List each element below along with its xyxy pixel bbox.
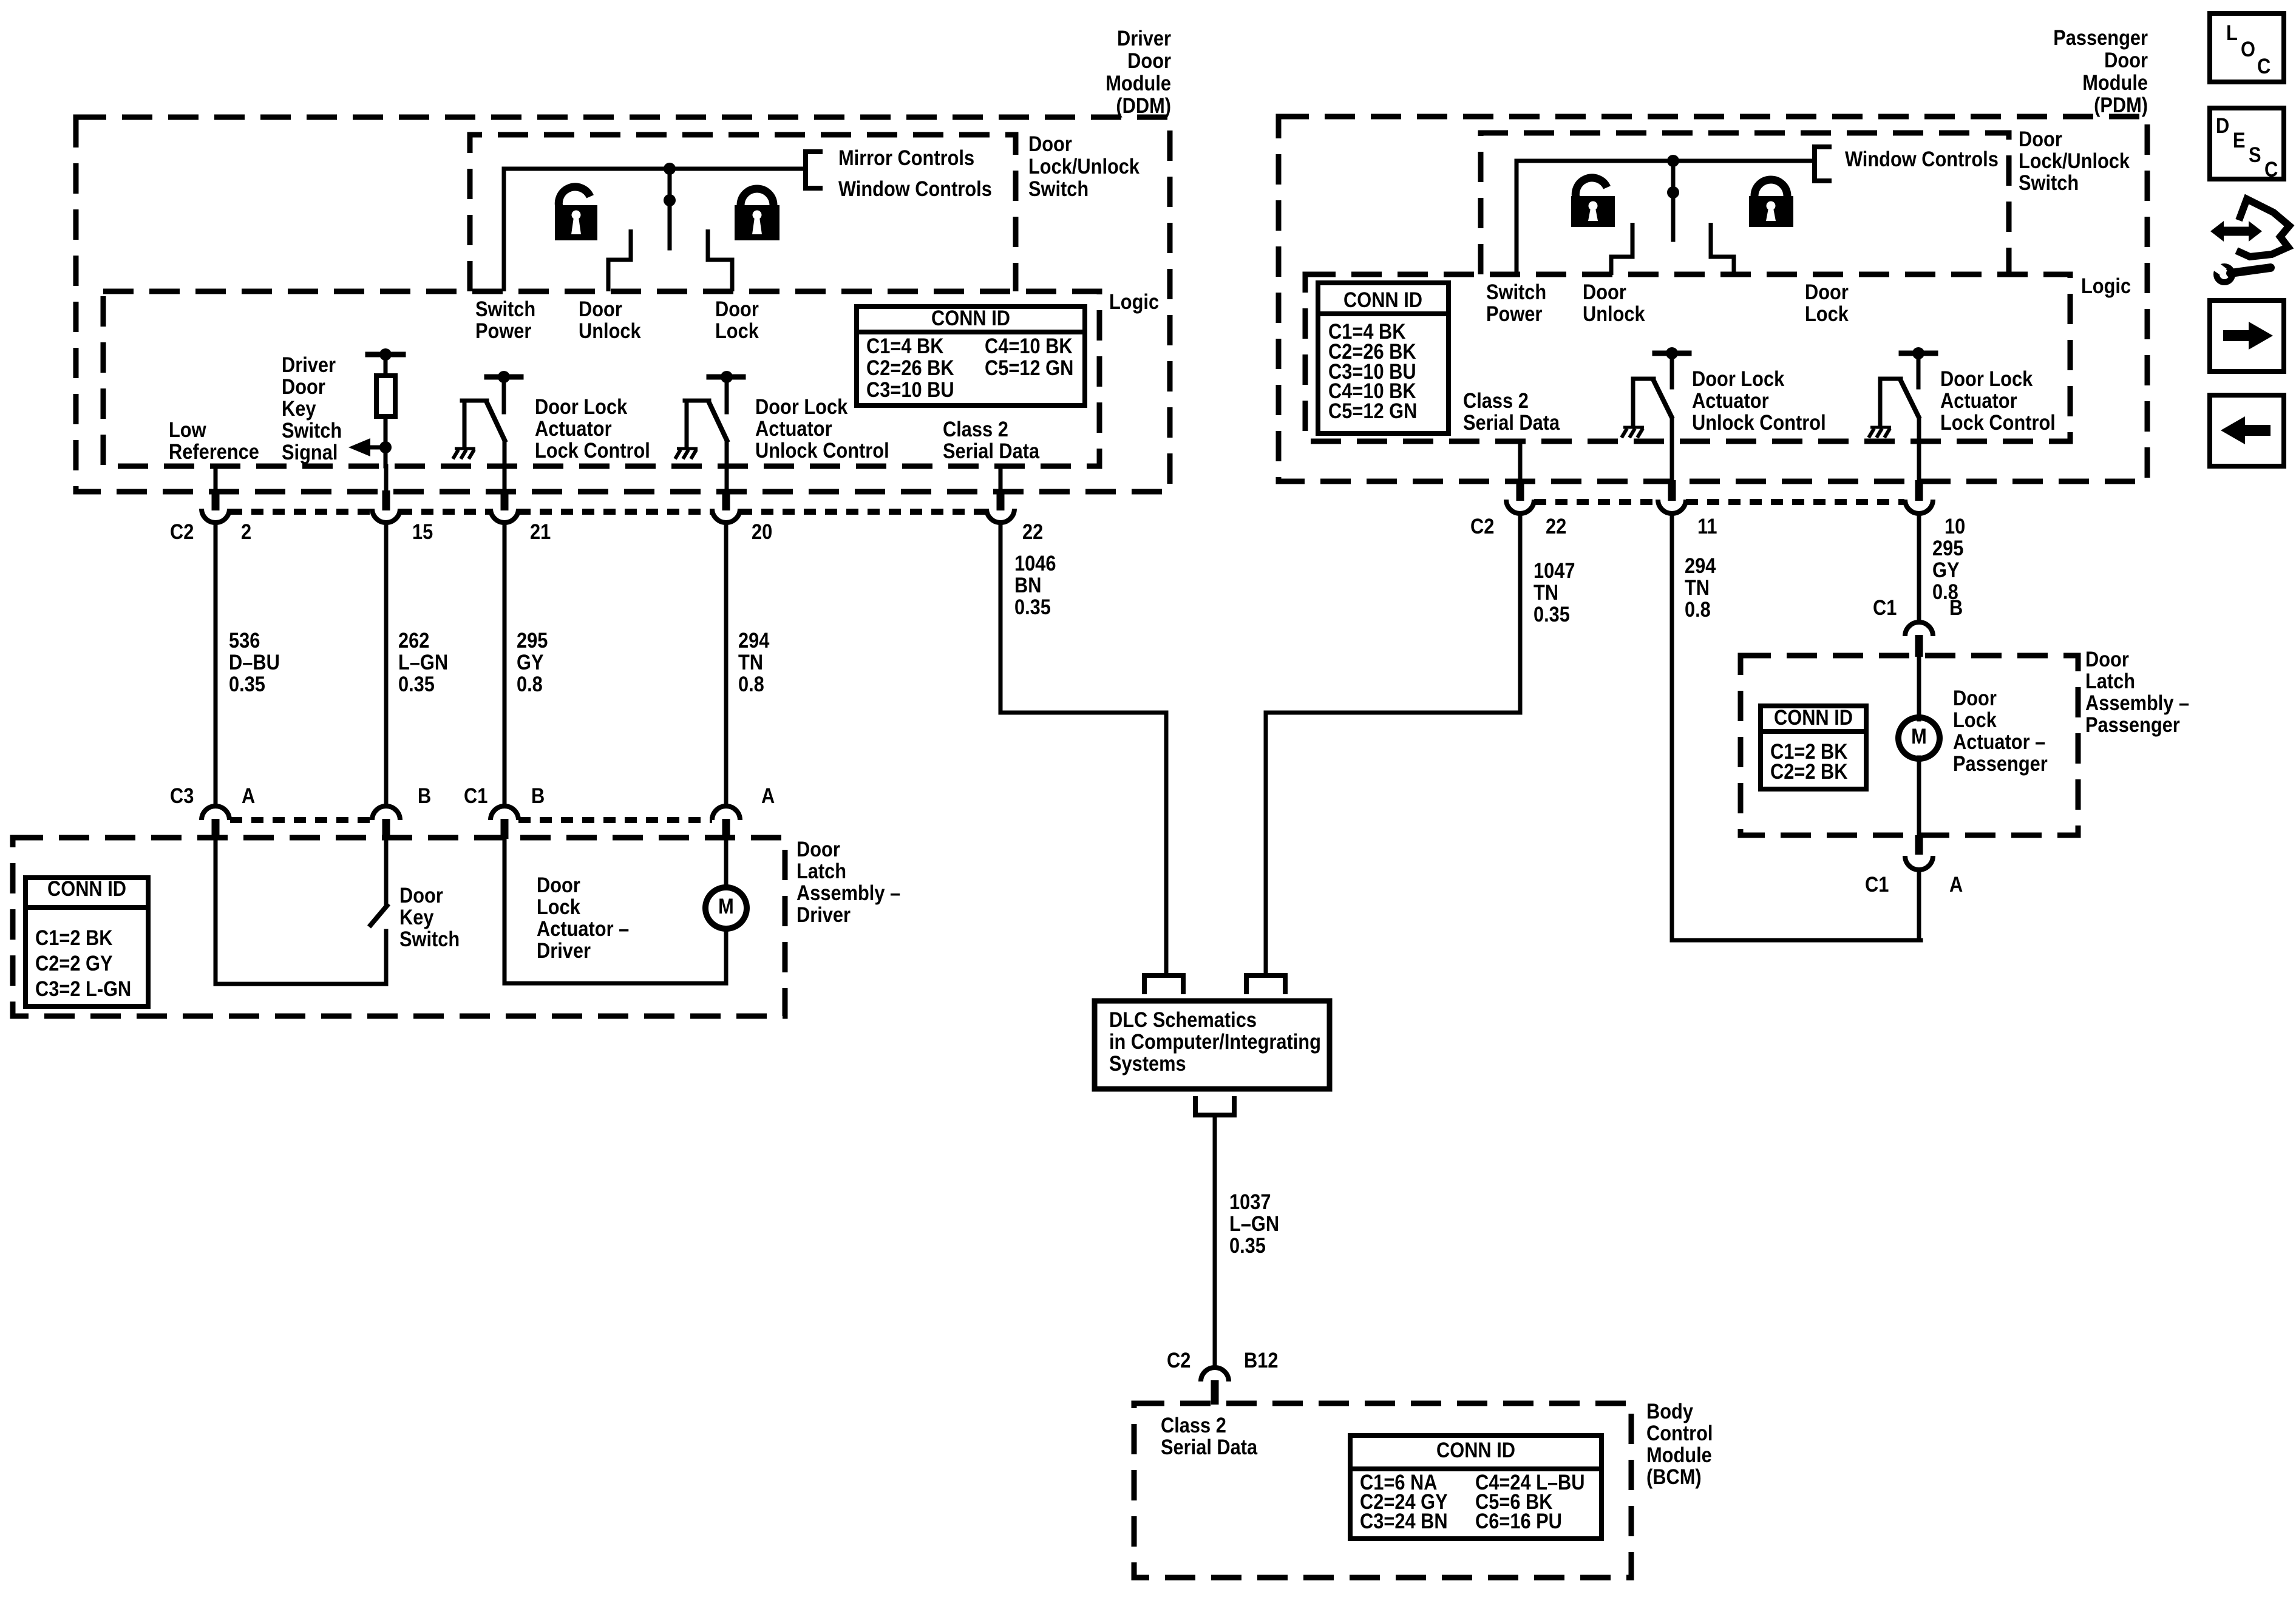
wire 294 TN (passenger) [1670, 514, 1674, 940]
switch S2 Door Lock/Unlock Switch (PDM) dashed box [1481, 133, 2009, 274]
switch contact Door Lock [708, 229, 732, 291]
svg-text:22: 22 [1022, 520, 1043, 543]
svg-text:Door: Door [1805, 280, 1849, 303]
svg-text:Passenger: Passenger [1953, 751, 2048, 775]
svg-text:C2: C2 [1470, 514, 1494, 538]
switch contact Door Unlock (PDM) [1611, 223, 1632, 275]
wire unlock output (PDM) [1670, 419, 1674, 480]
connector fork right into DLC [1246, 975, 1285, 994]
wire unlock control output [725, 442, 729, 492]
svg-text:C: C [2257, 54, 2271, 78]
signal arrow to label [369, 446, 385, 450]
svg-text:C3=2 L-GN: C3=2 L-GN [35, 977, 131, 1000]
svg-text:C2=2 GY: C2=2 GY [35, 951, 113, 975]
svg-text:C3=24 BN: C3=24 BN [1360, 1509, 1448, 1533]
svg-text:O: O [2241, 37, 2255, 61]
module Door Latch Assembly Driver dashed box [13, 838, 785, 1016]
switch S1 Door Lock/Unlock Switch dashed box [470, 135, 1016, 291]
wire switch common bus [504, 169, 806, 291]
svg-text:Window Controls: Window Controls [1845, 147, 1999, 171]
power rail T for key switch pull-up [368, 352, 403, 358]
svg-text:Assembly –: Assembly – [796, 881, 900, 904]
svg-text:Actuator: Actuator [755, 416, 832, 440]
svg-text:Actuator –: Actuator – [1953, 730, 2045, 753]
svg-text:B: B [1949, 595, 1963, 619]
wire latch bottom (key switch loop) [216, 982, 386, 986]
resistor R key switch pull-up [376, 376, 395, 416]
svg-text:Switch: Switch [399, 927, 460, 951]
ground (driver unlock control) [677, 447, 698, 450]
connector cap and stub into driver latch x=831 [491, 806, 518, 820]
svg-text:Door: Door [1028, 132, 1072, 155]
node junction dots (PDM) [1667, 155, 1679, 167]
svg-text:Switch: Switch [475, 297, 535, 320]
svg-text:Door: Door [579, 297, 622, 320]
connector dotted line C2 (DDM) [230, 509, 372, 515]
table CONN ID (PDM) [1318, 283, 1449, 433]
svg-text:TN: TN [1685, 575, 1710, 599]
svg-text:0.8: 0.8 [738, 672, 764, 696]
pin stub and connector cup PDM x=2754 [1668, 480, 1676, 501]
connector fork bottom of DLC [1195, 1096, 1234, 1115]
svg-text:11: 11 [1697, 514, 1717, 538]
module DDM Driver Door Module dashed box [76, 117, 1170, 492]
svg-text:Door: Door [1583, 280, 1626, 303]
svg-text:Lock Control: Lock Control [1940, 410, 2056, 434]
svg-text:C4=10 BK: C4=10 BK [985, 334, 1073, 358]
svg-text:Unlock Control: Unlock Control [755, 438, 889, 462]
wire rail to resistor [384, 354, 388, 376]
svg-text:A: A [1949, 872, 1963, 896]
svg-text:295: 295 [1932, 536, 1963, 560]
svg-text:M: M [1911, 724, 1927, 748]
svg-text:M: M [718, 894, 734, 918]
logic block dashed box (PDM) [1305, 274, 2070, 441]
svg-text:CONN ID: CONN ID [1343, 288, 1422, 311]
blade door key switch [369, 904, 389, 927]
svg-text:Latch: Latch [2085, 669, 2135, 693]
svg-text:0.35: 0.35 [1229, 1233, 1266, 1257]
svg-text:C2=2 BK: C2=2 BK [1770, 759, 1848, 783]
svg-text:TN: TN [1533, 580, 1558, 604]
svg-text:21: 21 [530, 520, 551, 543]
svg-text:295: 295 [517, 628, 548, 652]
svg-text:0.35: 0.35 [398, 672, 435, 696]
connector C1 A out of passenger latch [1915, 835, 1923, 855]
connector cap and stub into driver latch x=636 [372, 806, 400, 820]
svg-text:in Computer/Integrating: in Computer/Integrating [1109, 1029, 1321, 1053]
svg-text:Door: Door [2019, 127, 2062, 151]
connector bracket to window controls (PDM) [1815, 147, 1832, 181]
wire 1046 BN class 2 serial data (driver) [1000, 523, 1166, 974]
wire 262 L-GN [384, 523, 389, 805]
svg-text:GY: GY [517, 650, 544, 674]
motor M door lock actuator driver [705, 887, 747, 929]
svg-text:1046: 1046 [1014, 551, 1056, 575]
pin stub and connector cup DDM pin 0 [214, 466, 218, 492]
svg-text:Low: Low [169, 418, 206, 441]
svg-text:Systems: Systems [1109, 1051, 1186, 1075]
wire lock output (PDM) [1917, 419, 1921, 480]
svg-text:Door Lock: Door Lock [535, 395, 628, 418]
svg-text:Unlock: Unlock [579, 319, 641, 342]
driver Q2 blade and ground leg [685, 399, 709, 403]
svg-text:CONN ID: CONN ID [47, 876, 126, 900]
svg-text:C2: C2 [1167, 1348, 1190, 1372]
svg-text:262: 262 [398, 628, 429, 652]
node key switch signal junction [379, 441, 392, 453]
svg-text:(PDM): (PDM) [2094, 93, 2148, 117]
svg-text:Module: Module [1106, 71, 1171, 95]
svg-text:Driver: Driver [796, 903, 851, 926]
svg-text:C1=2 BK: C1=2 BK [35, 926, 113, 949]
svg-text:1037: 1037 [1229, 1190, 1271, 1213]
pin stub and connector cup PDM x=3161 [1915, 480, 1923, 501]
wire 536 D-BU [214, 523, 218, 805]
box DLC Schematics [1095, 1001, 1330, 1089]
svg-text:294: 294 [738, 628, 770, 652]
switch door key switch wires [384, 839, 389, 904]
driver Q3 door lock actuator unlock control (PDM): rail [1655, 351, 1689, 356]
connector cap into BCM [1201, 1368, 1229, 1381]
module PDM Passenger Door Module dashed box [1279, 117, 2147, 481]
wire switch common bus (PDM) [1517, 161, 1815, 274]
wire 295 GY (driver) [503, 523, 507, 805]
svg-text:S: S [2249, 143, 2261, 166]
svg-text:Lock/Unlock: Lock/Unlock [2019, 149, 2130, 172]
svg-text:Unlock: Unlock [1583, 302, 1645, 325]
svg-text:Door: Door [537, 873, 580, 897]
svg-text:Passenger: Passenger [2053, 25, 2148, 49]
svg-text:0.8: 0.8 [1685, 597, 1711, 621]
wire 295 GY (passenger) [1917, 514, 1921, 622]
switch contact Door Lock (PDM) [1711, 223, 1734, 275]
svg-text:CONN ID: CONN ID [1436, 1438, 1515, 1462]
svg-text:Actuator –: Actuator – [537, 917, 629, 940]
svg-text:Door: Door [1953, 686, 1997, 710]
wire 1037 L-GN [1213, 1115, 1217, 1367]
driver Q1 blade and ground leg [462, 399, 487, 403]
svg-text:C5=12 GN: C5=12 GN [985, 356, 1073, 379]
svg-text:Lock: Lock [537, 895, 580, 918]
svg-text:Door: Door [399, 883, 443, 907]
svg-text:Window Controls: Window Controls [838, 177, 992, 200]
svg-text:Signal: Signal [282, 440, 338, 464]
svg-text:1047: 1047 [1533, 558, 1575, 582]
driver Q3 blade and ground leg [1633, 377, 1654, 381]
table CONN ID (driver latch) [25, 878, 148, 1006]
ground (driver lock control) [455, 447, 475, 450]
svg-text:Door Lock: Door Lock [1940, 367, 2033, 390]
node junction dot below bus [664, 194, 676, 206]
table CONN ID (passenger latch) [1761, 706, 1866, 789]
connector cap and stub into driver latch x=1196 [712, 806, 740, 820]
svg-text:Power: Power [1486, 302, 1543, 325]
svg-text:B: B [531, 784, 545, 807]
svg-text:Logic: Logic [1109, 290, 1159, 313]
svg-text:Actuator: Actuator [535, 416, 612, 440]
svg-text:Body: Body [1646, 1399, 1694, 1423]
icon box left arrow [2210, 395, 2284, 466]
svg-text:Passenger: Passenger [2085, 713, 2180, 736]
svg-text:C1: C1 [1873, 595, 1897, 619]
svg-text:DLC Schematics: DLC Schematics [1109, 1008, 1257, 1031]
svg-text:Door Lock: Door Lock [1692, 367, 1785, 390]
svg-text:20: 20 [752, 520, 772, 543]
icon locked padlock (driver) [735, 205, 779, 240]
svg-text:Key: Key [282, 396, 316, 420]
svg-text:Assembly –: Assembly – [2085, 691, 2189, 714]
svg-text:Driver: Driver [537, 938, 591, 962]
svg-text:Lock: Lock [1953, 708, 1997, 731]
svg-text:Class 2: Class 2 [943, 417, 1008, 441]
svg-text:D–BU: D–BU [229, 650, 280, 674]
svg-text:294: 294 [1685, 554, 1716, 577]
module Door Latch Assembly Passenger dashed box [1741, 656, 2078, 835]
svg-text:Mirror Controls: Mirror Controls [838, 146, 974, 169]
svg-text:Unlock Control: Unlock Control [1692, 410, 1826, 434]
svg-text:15: 15 [412, 520, 433, 543]
svg-text:L–GN: L–GN [1229, 1212, 1279, 1235]
svg-text:Driver: Driver [282, 353, 336, 376]
svg-text:B: B [418, 784, 431, 807]
svg-text:TN: TN [738, 650, 763, 674]
svg-text:Serial Data: Serial Data [943, 439, 1040, 463]
svg-text:D: D [2216, 114, 2229, 137]
svg-text:Actuator: Actuator [1940, 388, 2017, 412]
svg-text:C2=26 BK: C2=26 BK [866, 356, 954, 379]
ground (PDM lock control) [1870, 426, 1891, 429]
svg-text:Lock/Unlock: Lock/Unlock [1028, 154, 1140, 178]
svg-text:BN: BN [1014, 573, 1041, 597]
connector dotted line C2 (PDM) [1534, 499, 1657, 505]
wire latch bottom loop (passenger) [1917, 870, 1921, 940]
svg-text:C2: C2 [170, 520, 194, 543]
icon locked padlock (PDM) [1749, 196, 1793, 227]
svg-text:A: A [242, 784, 255, 807]
svg-text:Module: Module [2082, 70, 2148, 94]
svg-text:0.35: 0.35 [1014, 595, 1051, 619]
wire resistor down [384, 416, 388, 466]
svg-text:10: 10 [1944, 514, 1965, 538]
svg-text:Lock: Lock [1805, 302, 1849, 325]
icon box LOC [2210, 13, 2284, 82]
connector fork left into DLC [1144, 975, 1183, 994]
svg-text:Door: Door [796, 837, 840, 861]
svg-text:L–GN: L–GN [398, 650, 448, 674]
pin stub and connector cup DDM pin 4 [999, 466, 1003, 492]
logic block dashed box (DDM) [103, 291, 1099, 466]
svg-text:Serial Data: Serial Data [1463, 410, 1560, 434]
svg-text:Class 2: Class 2 [1463, 388, 1529, 412]
pin stub and connector cup DDM pin 2 [501, 490, 509, 510]
svg-text:Latch: Latch [796, 859, 846, 883]
svg-text:536: 536 [229, 628, 260, 652]
icon diagnostic hand with arrow and wrench [2221, 227, 2250, 236]
svg-text:Logic: Logic [2081, 274, 2131, 297]
connector bracket to mirror/window controls [806, 152, 823, 188]
svg-text:Door Lock: Door Lock [755, 395, 848, 418]
table CONN ID (DDM) [857, 307, 1085, 405]
svg-text:Driver: Driver [1117, 26, 1171, 50]
driver Q4 blade and ground leg [1880, 377, 1901, 381]
driver Q1 door lock actuator lock control: rail [487, 375, 521, 380]
svg-text:Control: Control [1646, 1421, 1713, 1445]
pin stub and connector cup DDM pin 1 [384, 466, 389, 492]
svg-text:CONN ID: CONN ID [1774, 705, 1853, 729]
svg-text:B12: B12 [1244, 1348, 1278, 1372]
module Body Control Module dashed box [1134, 1403, 1631, 1578]
wire switch pole [668, 169, 672, 248]
svg-text:22: 22 [1546, 514, 1566, 538]
svg-text:Switch: Switch [1486, 280, 1546, 303]
icon unlocked padlock (driver) [555, 205, 597, 240]
switch contact Door Unlock [608, 229, 631, 291]
svg-text:C3: C3 [170, 784, 194, 807]
ground (PDM unlock control) [1623, 426, 1644, 429]
svg-text:Door: Door [2104, 48, 2148, 72]
icon box DESC [2210, 108, 2284, 179]
svg-text:Serial Data: Serial Data [1161, 1435, 1258, 1459]
wire lock control output [503, 442, 507, 492]
connector cap and stub into driver latch x=355 [202, 806, 229, 820]
motor M door lock actuator passenger [1898, 717, 1940, 759]
svg-text:(BCM): (BCM) [1646, 1465, 1702, 1488]
wire to motor (passenger) [1917, 657, 1921, 719]
svg-text:Switch: Switch [2019, 171, 2079, 194]
svg-text:0.35: 0.35 [1533, 602, 1570, 626]
table CONN ID (BCM) [1350, 1436, 1601, 1539]
svg-text:L: L [2226, 21, 2238, 44]
svg-text:GY: GY [1932, 558, 1960, 581]
pin stub and connector cup DDM pin 3 [722, 490, 730, 510]
svg-text:C5=12 GN: C5=12 GN [1328, 399, 1417, 422]
svg-text:Lock Control: Lock Control [535, 438, 650, 462]
svg-text:Class 2: Class 2 [1161, 1413, 1226, 1437]
svg-text:Switch: Switch [1028, 177, 1089, 200]
svg-text:Door: Door [2085, 647, 2129, 671]
svg-text:Door: Door [715, 297, 759, 320]
connector dotted line (driver latch) [230, 817, 372, 823]
svg-text:0.35: 0.35 [229, 672, 265, 696]
svg-text:C1=4 BK: C1=4 BK [866, 334, 944, 358]
svg-text:Module: Module [1646, 1443, 1712, 1466]
svg-text:Reference: Reference [169, 439, 259, 463]
svg-text:Switch: Switch [282, 418, 342, 442]
node junction dot on bus [664, 163, 676, 175]
svg-text:(DDM): (DDM) [1116, 93, 1171, 117]
pin stub and connector cup PDM x=2504 [1518, 441, 1523, 480]
svg-text:A: A [761, 784, 775, 807]
svg-text:Actuator: Actuator [1692, 388, 1769, 412]
svg-text:2: 2 [241, 520, 251, 543]
wire 1047 TN class 2 serial data (PDM) [1266, 514, 1520, 974]
svg-text:C: C [2264, 157, 2278, 181]
svg-text:Power: Power [475, 319, 532, 342]
wires motor loop (driver) [503, 839, 507, 983]
icon box right arrow [2210, 300, 2284, 371]
wire switch pole (PDM) [1671, 161, 1676, 240]
svg-text:Door: Door [1127, 49, 1171, 72]
svg-text:C1: C1 [464, 784, 487, 807]
wire 294 TN (driver) [724, 523, 729, 805]
svg-text:0.8: 0.8 [517, 672, 543, 696]
driver Q2 door lock actuator unlock control: rail [709, 375, 743, 380]
svg-text:E: E [2233, 128, 2246, 152]
svg-text:Door: Door [282, 375, 325, 398]
svg-text:Lock: Lock [715, 319, 759, 342]
svg-text:C1: C1 [1865, 872, 1889, 896]
svg-text:CONN ID: CONN ID [931, 306, 1010, 330]
svg-text:Key: Key [399, 905, 434, 929]
icon unlocked padlock (PDM) [1571, 196, 1615, 227]
svg-text:C3=10 BU: C3=10 BU [866, 378, 954, 401]
svg-text:C6=16 PU: C6=16 PU [1475, 1509, 1562, 1533]
driver Q4 door lock actuator lock control (PDM): rail [1901, 351, 1935, 356]
